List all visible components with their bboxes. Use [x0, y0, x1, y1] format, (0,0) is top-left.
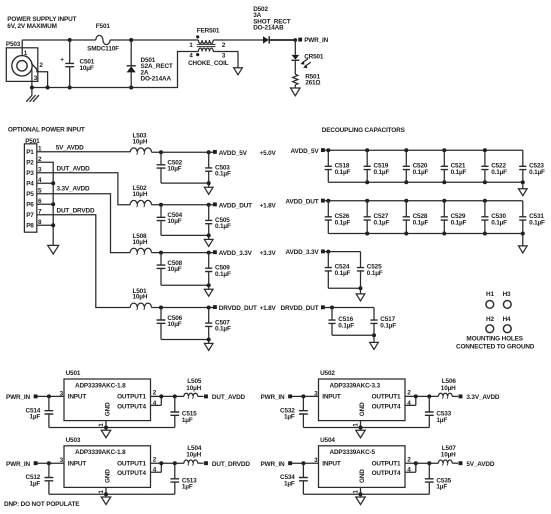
wire: U502 outputs join	[405, 396, 438, 405]
junction: C518 top	[326, 148, 330, 152]
node 3.3V_AVDD	[459, 394, 500, 401]
svg-text:0.1µF: 0.1µF	[335, 270, 351, 277]
svg-text:2: 2	[153, 457, 157, 464]
ground: filter AVDD_3.3V	[204, 289, 213, 296]
svg-text:3: 3	[222, 52, 226, 59]
svg-text:CHOKE_COIL: CHOKE_COIL	[188, 60, 229, 67]
svg-text:ADP3339AKC-1.8: ADP3339AKC-1.8	[75, 382, 126, 389]
svg-text:PWR_IN: PWR_IN	[6, 394, 30, 401]
junction: D501 bottom	[129, 86, 133, 90]
mounting hole H3	[503, 291, 512, 308]
capacitor C504	[157, 205, 183, 236]
wire: AVDD_DUT rail	[325, 201, 523, 246]
svg-text:AVDD_5V: AVDD_5V	[291, 148, 320, 155]
junction: C508 top	[159, 251, 163, 255]
svg-text:0.1µF: 0.1µF	[491, 169, 507, 176]
capacitor C517	[370, 308, 396, 336]
svg-text:PWR_IN: PWR_IN	[304, 37, 328, 44]
svg-text:0.1µF: 0.1µF	[215, 326, 231, 333]
junction: bus P8	[51, 223, 55, 227]
junction: C522 bottom	[483, 180, 487, 184]
svg-text:P6: P6	[26, 202, 34, 209]
svg-text:U502: U502	[320, 370, 335, 377]
wire: C508/C509 ground rail	[161, 285, 209, 289]
junction: D501 top	[129, 38, 133, 42]
P503 pin 1	[22, 40, 28, 57]
title: power supply input	[7, 16, 76, 30]
svg-text:0.1µF: 0.1µF	[413, 169, 429, 176]
junction: C521 bottom	[442, 180, 446, 184]
svg-text:DNP: DO NOT POPULATE: DNP: DO NOT POPULATE	[4, 501, 80, 508]
ground: AVDD_5V decoupling	[519, 189, 528, 196]
svg-text:DRVDD_DUT: DRVDD_DUT	[281, 305, 319, 312]
svg-text:2: 2	[153, 390, 157, 397]
capacitor C521	[441, 150, 467, 182]
choke FER501	[188, 27, 229, 67]
svg-text:5V_AVDD: 5V_AVDD	[466, 461, 494, 468]
note: DNP	[4, 501, 80, 508]
svg-text:PWR_IN: PWR_IN	[261, 461, 285, 468]
svg-text:OUTPUT1: OUTPUT1	[117, 394, 146, 401]
inductor L507	[438, 445, 458, 466]
wire: C502/C503 ground rail	[161, 183, 209, 187]
wire: top rail	[22, 39, 263, 41]
wire: U504 GND pin stub	[360, 487, 362, 497]
capacitor C505	[205, 205, 231, 236]
svg-text:DUT_DRVDD: DUT_DRVDD	[212, 461, 250, 468]
svg-text:10µH: 10µH	[133, 294, 148, 301]
svg-text:2: 2	[407, 390, 411, 397]
svg-text:DUT_AVDD: DUT_AVDD	[212, 394, 246, 401]
wire: PWR_IN to U501 INPUT	[37, 395, 64, 397]
svg-text:0.1µF: 0.1µF	[215, 271, 231, 278]
node DRVDD_DUT (decoupling rail label)	[281, 305, 325, 312]
wire: P501 to L502 (DUT_AVDD)	[37, 165, 130, 204]
junction: rail C505	[207, 233, 211, 237]
inductor L503	[130, 133, 151, 155]
svg-text:+1.8V: +1.8V	[260, 202, 277, 209]
svg-text:6V, 2V MAXIMUM: 6V, 2V MAXIMUM	[7, 23, 57, 30]
svg-text:INPUT: INPUT	[322, 460, 341, 467]
fuse F501	[87, 23, 119, 53]
inductor L502	[130, 185, 151, 207]
svg-text:DECOUPLING CAPACITORS: DECOUPLING CAPACITORS	[322, 127, 406, 134]
junction: C503 top	[207, 150, 211, 154]
svg-text:H4: H4	[503, 316, 511, 323]
junction: C532 top	[301, 394, 305, 398]
ground: filter AVDD_5V	[204, 187, 213, 194]
wire: PWR_IN to U504 INPUT	[292, 462, 319, 464]
svg-text:1: 1	[98, 490, 105, 494]
caption: mounting holes	[456, 336, 535, 351]
svg-text:5V_AVDD: 5V_AVDD	[56, 144, 84, 151]
junction: C530 bottom	[483, 232, 487, 236]
wire: U503 outputs join	[151, 463, 184, 472]
svg-text:0.1µF: 0.1µF	[374, 219, 390, 226]
svg-text:+1.8V: +1.8V	[260, 305, 277, 312]
wire: U503 ground rail	[49, 493, 175, 495]
ground: chassis at P503	[26, 88, 39, 102]
node AVDD_5V	[213, 150, 277, 157]
ground: R501	[291, 88, 301, 96]
junction: C527 bottom	[365, 232, 369, 236]
svg-text:0.1µF: 0.1µF	[380, 323, 396, 330]
junction: C519 bottom	[365, 180, 369, 184]
node PWR_IN (U502 input)	[261, 394, 293, 401]
inductor L501	[130, 288, 151, 310]
junction: U502 gnd	[359, 426, 363, 430]
svg-text:U503: U503	[66, 437, 81, 444]
title: decoupling capacitors	[322, 127, 406, 134]
ground: filter AVDD_DUT	[204, 239, 213, 246]
junction: U504 output	[414, 461, 418, 465]
junction: C520 bottom	[404, 180, 408, 184]
svg-text:3.3V_AVDD: 3.3V_AVDD	[57, 185, 91, 192]
junction: U503 output	[159, 461, 163, 465]
junction: U501 gnd	[104, 426, 108, 430]
ground: AVDD_3.3V decoupling	[356, 294, 365, 301]
svg-text:INPUT: INPUT	[68, 460, 87, 467]
junction: C501 bottom	[68, 86, 72, 90]
junction: C520 top	[404, 148, 408, 152]
svg-text:10µF: 10µF	[167, 218, 181, 225]
junction: C507 top	[207, 306, 211, 310]
svg-text:H1: H1	[486, 291, 494, 298]
svg-text:1µF: 1µF	[182, 417, 193, 424]
svg-text:OPTIONAL POWER INPUT: OPTIONAL POWER INPUT	[8, 127, 85, 134]
junction: C516 top	[330, 306, 334, 310]
svg-text:ADP3339AKC-5: ADP3339AKC-5	[330, 449, 376, 456]
op-amp/regulator U501 (ADP3339AKC-1.8)	[60, 370, 157, 427]
svg-text:DO-214AA: DO-214AA	[141, 75, 172, 82]
svg-text:P3: P3	[26, 170, 34, 177]
junction: C512 top	[47, 461, 51, 465]
wire: PWR_IN to U502 INPUT	[292, 395, 319, 397]
svg-text:4: 4	[189, 52, 193, 59]
svg-text:ADP3339AKC-1.8: ADP3339AKC-1.8	[75, 449, 126, 456]
LED CR501	[292, 54, 324, 69]
connector P503 (barrel jack)	[6, 41, 38, 82]
wire: DRVDD_DUT rail	[325, 308, 374, 343]
wire: U501 outputs join	[151, 396, 184, 405]
wire: PWR_IN to CR501	[294, 40, 296, 55]
svg-text:AVDD_3.3V: AVDD_3.3V	[286, 249, 320, 256]
svg-text:1: 1	[24, 50, 28, 57]
wire: AVDD_3.3V rail	[325, 252, 361, 294]
svg-text:GND: GND	[104, 402, 111, 416]
junction: C535 top	[427, 461, 431, 465]
node DRVDD_DUT	[213, 305, 277, 312]
node AVDD_3.3V (decoupling rail label)	[286, 249, 325, 256]
svg-text:1µF: 1µF	[284, 414, 295, 421]
capacitor C523	[519, 150, 545, 182]
svg-text:0.1µF: 0.1µF	[529, 219, 545, 226]
svg-text:CONNECTED TO GROUND: CONNECTED TO GROUND	[456, 344, 535, 351]
svg-text:10µH: 10µH	[133, 239, 148, 246]
wire: U504 ground rail	[303, 493, 429, 495]
junction: rail C507	[207, 338, 211, 342]
node AVDD_DUT	[213, 202, 277, 209]
node DUT_DRVDD	[204, 461, 250, 468]
capacitor C502	[157, 152, 183, 183]
wire: U503 GND pin stub	[105, 487, 107, 497]
junction: C529 bottom	[442, 232, 446, 236]
svg-text:OUTPUT4: OUTPUT4	[372, 403, 401, 410]
wire: U501 GND pin stub	[105, 421, 107, 431]
junction: C509 top	[207, 251, 211, 255]
svg-text:DRVDD_DUT: DRVDD_DUT	[219, 305, 257, 312]
wire: C506/C507 ground rail	[161, 340, 209, 344]
capacitor C528	[403, 201, 429, 234]
node PWR_IN	[293, 37, 328, 44]
capacitor C503	[205, 152, 231, 183]
svg-text:10µF: 10µF	[167, 166, 181, 173]
op-amp/regulator U502 (ADP3339AKC-3.3)	[314, 370, 411, 427]
junction: C504 top	[159, 203, 163, 207]
capacitor C509	[205, 253, 231, 286]
svg-text:DO-214AB: DO-214AB	[253, 25, 284, 32]
svg-text:0.1µF: 0.1µF	[367, 270, 383, 277]
svg-text:1: 1	[189, 42, 193, 49]
capacitor C533	[425, 396, 452, 427]
junction: C521 top	[442, 148, 446, 152]
wire: P501 to L501 (DUT_DRVDD)	[37, 208, 130, 308]
capacitor C516	[328, 308, 354, 336]
capacitor C506	[157, 308, 183, 340]
capacitor C534	[280, 463, 308, 494]
junction: return at pin3	[30, 86, 34, 90]
node 5V_AVDD	[459, 461, 495, 468]
svg-text:0.1µF: 0.1µF	[529, 169, 545, 176]
svg-text:AVDD_DUT: AVDD_DUT	[219, 202, 252, 209]
svg-text:2: 2	[407, 457, 411, 464]
svg-text:P7: P7	[26, 212, 34, 219]
junction: C528 bottom	[404, 232, 408, 236]
junction: C533 top	[427, 394, 431, 398]
inductor L506	[438, 378, 458, 399]
junction: U504 gnd	[359, 492, 363, 496]
wire: FER501 pin3 to ground	[213, 52, 238, 68]
svg-text:1: 1	[352, 423, 359, 427]
wire: U502 ground rail	[303, 427, 429, 429]
svg-text:10µH: 10µH	[441, 385, 456, 392]
junction: C517 bottom	[372, 333, 376, 337]
capacitor C501	[60, 40, 95, 88]
junction: rail C509	[207, 283, 211, 287]
svg-text:OUTPUT4: OUTPUT4	[117, 470, 146, 477]
wire: D502 to PWR_IN	[269, 39, 295, 41]
svg-text:0.1µF: 0.1µF	[491, 219, 507, 226]
ground: U501	[101, 430, 110, 438]
svg-text:FER501: FER501	[197, 27, 220, 34]
svg-text:+: +	[60, 57, 64, 64]
junction: bus P4	[51, 181, 55, 185]
svg-text:0.1µF: 0.1µF	[335, 169, 351, 176]
svg-text:10µH: 10µH	[186, 385, 201, 392]
ground: U502	[356, 430, 365, 438]
resistor R501	[293, 73, 321, 86]
inductor L504	[184, 445, 204, 466]
wire: U501 ground rail	[49, 427, 175, 429]
capacitor C519	[364, 150, 390, 182]
capacitor C518	[325, 150, 351, 182]
node AVDD_DUT (decoupling rail label)	[285, 198, 324, 205]
wire: bottom return rail	[32, 52, 199, 88]
ground: FER501	[234, 68, 243, 75]
svg-text:261Ω: 261Ω	[305, 80, 320, 87]
svg-text:P503: P503	[6, 41, 21, 48]
svg-text:INPUT: INPUT	[68, 394, 87, 401]
junction: C513 top	[173, 461, 177, 465]
node PWR_IN (U501 input)	[6, 394, 38, 401]
wire: U504 outputs join	[405, 463, 438, 472]
junction: C534 top	[301, 461, 305, 465]
svg-text:DUT_DRVDD: DUT_DRVDD	[57, 208, 95, 215]
junction: bus P6	[51, 202, 55, 206]
inductor L505	[184, 378, 204, 399]
svg-text:P4: P4	[26, 181, 34, 188]
svg-text:10µF: 10µF	[80, 65, 94, 72]
ground: U503	[101, 497, 110, 505]
svg-text:OUTPUT4: OUTPUT4	[372, 470, 401, 477]
svg-text:2: 2	[39, 62, 43, 69]
svg-text:1: 1	[98, 423, 105, 427]
svg-text:10µH: 10µH	[186, 452, 201, 459]
svg-text:AVDD_5V: AVDD_5V	[219, 150, 248, 157]
capacitor C512	[26, 463, 54, 494]
capacitor C513	[170, 463, 197, 494]
junction: U501 output	[159, 394, 163, 398]
diode D502	[253, 6, 291, 44]
svg-text:INPUT: INPUT	[322, 394, 341, 401]
junction: return at pin2	[46, 86, 50, 90]
junction: C525 bottom	[359, 286, 363, 290]
svg-text:1: 1	[352, 490, 359, 494]
capacitor C515	[170, 396, 197, 427]
svg-text:0.1µF: 0.1µF	[451, 219, 467, 226]
svg-text:0.1µF: 0.1µF	[413, 219, 429, 226]
junction: C530 top	[483, 199, 487, 203]
svg-text:PWR_IN: PWR_IN	[261, 394, 285, 401]
svg-text:10µF: 10µF	[167, 321, 181, 328]
P503 pin 2	[31, 62, 47, 87]
junction: U503 gnd	[104, 492, 108, 496]
junction: C501 top	[68, 38, 72, 42]
wire: CR501 to R501	[294, 60, 296, 74]
ground: AVDD_DUT decoupling	[519, 246, 528, 253]
capacitor C535	[425, 463, 452, 494]
capacitor C514	[26, 396, 54, 427]
svg-text:OUTPUT4: OUTPUT4	[117, 403, 146, 410]
junction: C527 top	[365, 199, 369, 203]
svg-text:0.1µF: 0.1µF	[338, 323, 354, 330]
wire: P501 even pins to ground bus	[37, 162, 53, 245]
svg-text:10µH: 10µH	[133, 139, 148, 146]
junction: C502 top	[159, 150, 163, 154]
capacitor C508	[157, 253, 183, 286]
svg-text:10µF: 10µF	[167, 266, 181, 273]
svg-text:10µH: 10µH	[133, 191, 148, 198]
junction: C522 top	[483, 148, 487, 152]
wire: U502 GND pin stub	[360, 421, 362, 431]
diode D501	[127, 40, 173, 88]
junction: C523 bottom	[521, 180, 525, 184]
capacitor C526	[325, 201, 351, 234]
svg-text:3: 3	[34, 75, 38, 82]
svg-text:1µF: 1µF	[29, 414, 40, 421]
wire: L503 to node	[152, 151, 214, 153]
svg-text:P5: P5	[26, 191, 34, 198]
capacitor C524	[325, 252, 351, 289]
svg-text:PWR_IN: PWR_IN	[6, 461, 30, 468]
svg-text:P8: P8	[26, 223, 34, 230]
svg-text:H3: H3	[503, 291, 511, 298]
junction: C524 top	[326, 250, 330, 254]
wire: R501 to ground	[294, 85, 296, 88]
title: optional power input	[8, 127, 85, 134]
junction: U502 output	[414, 394, 418, 398]
ground: DRVDD_DUT decoupling	[370, 342, 379, 349]
svg-text:P1: P1	[26, 149, 34, 156]
svg-text:OUTPUT1: OUTPUT1	[372, 394, 401, 401]
svg-text:OUTPUT1: OUTPUT1	[372, 460, 401, 467]
wire: L502 to node	[152, 204, 214, 206]
capacitor C529	[441, 201, 467, 234]
svg-text:P2: P2	[26, 160, 34, 167]
svg-text:DUT_AVDD: DUT_AVDD	[57, 165, 91, 172]
svg-text:GND: GND	[104, 469, 111, 483]
svg-text:1µF: 1µF	[182, 484, 193, 491]
svg-text:1µF: 1µF	[436, 484, 447, 491]
capacitor C522	[481, 150, 507, 182]
svg-text:2: 2	[222, 42, 226, 49]
wire: P501 to L503 (5V_AVDD)	[37, 144, 130, 151]
svg-text:0.1µF: 0.1µF	[335, 219, 351, 226]
junction: C519 top	[365, 148, 369, 152]
svg-text:AVDD_DUT: AVDD_DUT	[285, 198, 318, 205]
wire: L501 to node	[152, 307, 214, 309]
wire: L508 to node	[152, 252, 214, 254]
op-amp/regulator U504 (ADP3339AKC-5)	[314, 437, 411, 494]
capacitor C507	[205, 308, 231, 340]
node AVDD_3.3V	[213, 250, 277, 257]
mounting hole H1	[486, 291, 495, 308]
op-amp/regulator U503 (ADP3339AKC-1.8)	[60, 437, 157, 494]
capacitor C527	[364, 201, 390, 234]
wire: PWR_IN to U503 INPUT	[37, 462, 64, 464]
mounting hole H4	[503, 316, 512, 333]
ground: P501 bus	[48, 245, 59, 254]
svg-text:0.1µF: 0.1µF	[215, 223, 231, 230]
wire: C504/C505 ground rail	[161, 235, 209, 239]
svg-text:+3.3V: +3.3V	[260, 250, 277, 257]
P503 pin 3	[32, 70, 38, 88]
wire: AVDD_5V rail	[325, 150, 523, 188]
junction: C531 bottom	[521, 232, 525, 236]
junction: C526 top	[326, 199, 330, 203]
svg-text:SMDC110F: SMDC110F	[87, 46, 119, 53]
capacitor C530	[481, 201, 507, 234]
svg-text:U501: U501	[66, 370, 81, 377]
node PWR_IN (U503 input)	[6, 461, 38, 468]
junction: C528 top	[404, 199, 408, 203]
junction: C529 top	[442, 199, 446, 203]
junction: C505 top	[207, 203, 211, 207]
connector P501	[24, 138, 42, 232]
svg-text:1µF: 1µF	[284, 480, 295, 487]
svg-text:F501: F501	[96, 23, 111, 30]
svg-text:10µH: 10µH	[441, 452, 456, 459]
